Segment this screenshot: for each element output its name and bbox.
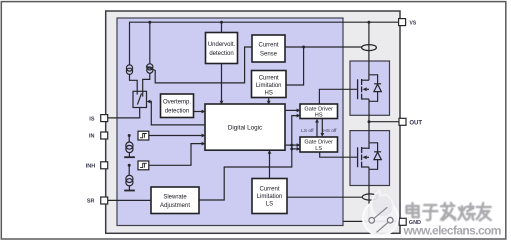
junction dot sense net (302, 46, 305, 49)
svg-text:Digital Logic: Digital Logic (228, 125, 262, 132)
junction dot rail to IS current source 2 (148, 21, 151, 24)
wire INH pulldown (128, 165, 130, 175)
svg-text:detection: detection (209, 51, 233, 57)
wire LS off signal (316, 122, 318, 138)
wire IN input to digital logic (149, 135, 205, 137)
svg-text:Undervolt.: Undervolt. (208, 42, 236, 48)
svg-text:Sense: Sense (260, 52, 278, 58)
wire gate driver LS to LS gate (320, 152, 358, 157)
transistor Q2 low-side DMOS (358, 143, 382, 170)
wire sense net to current limitation HS (286, 47, 304, 85)
svg-text:Limitation: Limitation (257, 194, 283, 200)
sense switch S1 (133, 91, 147, 107)
svg-text:Current: Current (259, 187, 279, 193)
wire HS source to LS drain (368, 99, 370, 149)
LS DMOS cell box (350, 131, 390, 186)
current source I2 (IS sense, controlled) (147, 64, 153, 73)
svg-text:Slewrate: Slewrate (163, 194, 187, 200)
junction dot IN pulldown (128, 134, 131, 137)
svg-text:LS: LS (315, 146, 322, 152)
svg-text:HS off: HS off (323, 128, 337, 134)
wire rail to undervoltage detection (221, 22, 223, 32)
wire digital logic to gate driver HS (285, 109, 299, 111)
block gate driver HS (300, 104, 338, 119)
wire overtemp detection to digital logic (194, 111, 205, 113)
pin INH (86, 162, 108, 170)
junction dot OUT node (368, 120, 371, 123)
watermark text dianzifashaoyou (407, 203, 491, 221)
svg-text:Gate Driver: Gate Driver (304, 107, 333, 113)
wire current limitation LS to GND shunt loop (287, 196, 362, 198)
wire OUT node to OUT pin (369, 121, 399, 123)
wire IS pin to sense switch (108, 108, 140, 118)
wire slewrate adjustment to gate drivers (199, 116, 299, 200)
junction dot rail to HS drain (367, 21, 370, 24)
pin SR (87, 197, 108, 205)
VS bond wire sense loop (362, 45, 377, 51)
svg-text:HS: HS (265, 91, 273, 97)
svg-text:Gate Driver: Gate Driver (304, 140, 333, 146)
wire SR pin to slewrate adjustment (108, 199, 151, 201)
IC package outline (106, 11, 400, 233)
wire current source 2 to switch (143, 73, 150, 91)
pin OUT (399, 118, 422, 126)
GND bond wire sense loop (362, 194, 377, 200)
block current limitation HS (252, 71, 287, 98)
wire current sense feedback to sense source (155, 47, 252, 83)
wire HS off signal (321, 119, 323, 135)
current source I1 (IS high) (126, 65, 132, 75)
junction dot INH pulldown (128, 164, 131, 167)
block digital logic U1 (205, 104, 285, 150)
transistor Q1 high-side DMOS (358, 75, 382, 102)
wire VS rail (130, 22, 399, 65)
svg-text:IS: IS (89, 116, 95, 122)
svg-text:INH: INH (86, 164, 96, 170)
wire current source 1 to switch (130, 74, 138, 91)
svg-text:IN: IN (89, 134, 95, 140)
svg-text:Current: Current (258, 43, 278, 49)
svg-text:VS: VS (410, 20, 417, 26)
wire digital logic to sense switch (148, 102, 205, 125)
wire slewrate branch to gate driver LS (292, 148, 299, 150)
wire current limitation LS to digital logic (269, 152, 271, 179)
junction dot rail to undervoltage detection (220, 21, 223, 24)
svg-text:detection: detection (165, 109, 189, 115)
pin VS (399, 19, 417, 27)
wire digital logic to gate driver LS (285, 144, 299, 146)
block current limitation LS (252, 179, 287, 214)
pin GND (399, 218, 406, 225)
wire current sense to VS shunt loop (285, 46, 362, 48)
svg-text:Adjustment: Adjustment (160, 203, 190, 209)
block slewrate adjustment (151, 187, 199, 214)
HS DMOS cell box (350, 61, 390, 115)
chip die area (117, 18, 343, 226)
svg-text:Current: Current (259, 76, 279, 82)
svg-text:LS off: LS off (301, 128, 314, 134)
watermark logo disc (363, 191, 398, 236)
svg-text:SR: SR (87, 199, 95, 205)
current source I4 (INH pulldown) (126, 175, 133, 186)
ground INH pulldown (124, 190, 135, 192)
current source I3 (IN pulldown) (126, 142, 133, 153)
ground IN pulldown (124, 156, 135, 158)
wire undervoltage detection to digital logic (221, 64, 223, 104)
block overtemp detection (161, 94, 194, 118)
wire I4 to ground (128, 186, 130, 190)
svg-text:Overtemp.: Overtemp. (163, 100, 191, 106)
svg-text:LS: LS (266, 202, 273, 208)
block gate driver LS (300, 137, 338, 152)
svg-text:Limitation: Limitation (256, 83, 282, 89)
wire gate driver HS to HS gate (319, 89, 357, 104)
junction dot slewrate branch (290, 147, 293, 150)
schmitt trigger U2 (IN) (138, 131, 149, 140)
wire IN pulldown (128, 136, 130, 143)
schmitt trigger U3 (INH) (138, 161, 149, 170)
wire VS to HS drain (368, 22, 370, 80)
svg-text:OUT: OUT (409, 121, 422, 127)
pin IS (89, 115, 107, 123)
block current sense (252, 35, 285, 62)
wire current limitation HS to digital logic (268, 98, 270, 104)
svg-text:GND: GND (409, 220, 421, 226)
junction dot slewrate net at gate driver LS branch (290, 144, 293, 147)
svg-text:HS: HS (315, 113, 323, 119)
pin IN (89, 132, 108, 140)
sense source control arrow (148, 68, 155, 71)
wire GND rail to GND pin (343, 220, 399, 222)
block undervoltage detection (206, 33, 238, 64)
wire INH input to digital logic (149, 144, 205, 166)
wire I3 to ground (128, 153, 130, 157)
wire LS source to GND (368, 167, 370, 221)
wire rail to current source 2 (149, 22, 151, 64)
